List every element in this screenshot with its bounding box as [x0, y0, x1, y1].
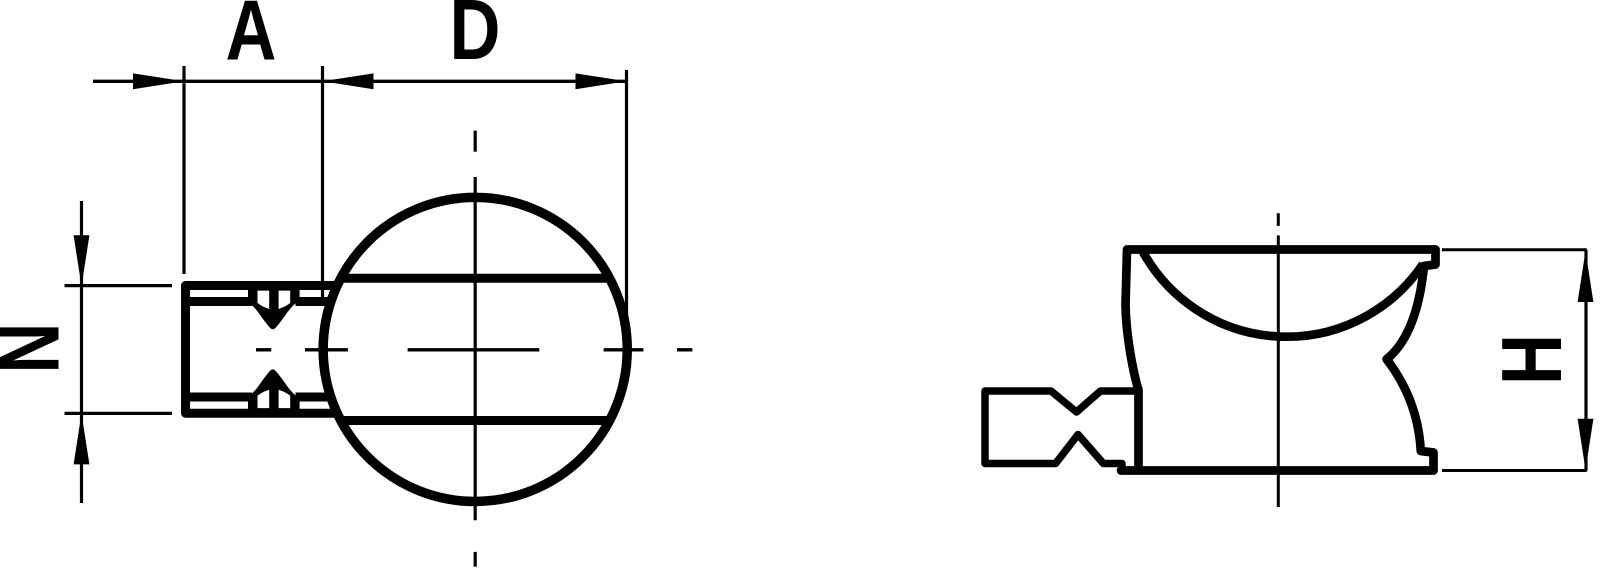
crimp notch white left	[258, 390, 270, 408]
svg-text:A: A	[226, 0, 277, 78]
chord top	[341, 274, 610, 283]
centerline vertical left view	[474, 131, 477, 567]
extension line H top	[1442, 248, 1587, 251]
inner wall top-right	[296, 297, 333, 306]
dimension N line	[80, 201, 83, 503]
dimension N witness top	[65, 284, 173, 287]
svg-text:H: H	[1484, 334, 1580, 385]
arrow H top	[1578, 251, 1594, 302]
extension line H bottom	[1442, 469, 1587, 472]
ball circle	[323, 197, 627, 501]
arrow A left	[133, 73, 184, 89]
extension line A right / D left	[321, 66, 324, 305]
crimp notch white left	[258, 291, 270, 309]
crimp mass top	[248, 283, 300, 329]
dimension N witness bottom	[65, 412, 173, 415]
crimp notch white right	[279, 390, 291, 408]
crimp notch white right	[279, 291, 291, 309]
saddle bowl arc	[1143, 252, 1423, 337]
arrow N top	[74, 235, 90, 286]
inner wall bottom-right	[296, 393, 333, 402]
extension line A left	[182, 66, 185, 274]
inner wall bottom-left	[190, 393, 252, 402]
label N	[0, 323, 77, 374]
centerline vertical right view	[1277, 213, 1280, 507]
label H	[1484, 334, 1580, 385]
dimension line A/D	[93, 80, 627, 83]
chord bottom	[341, 416, 610, 425]
centerline horizontal left view	[256, 348, 692, 351]
crimp bottom assembly (mirror)	[248, 369, 300, 415]
label D	[450, 0, 501, 78]
label A	[226, 0, 277, 78]
svg-text:N: N	[0, 323, 77, 374]
step stem to bottom	[1118, 464, 1126, 471]
arrow D right	[576, 73, 627, 89]
inner wall top-left	[190, 297, 252, 306]
svg-text:D: D	[450, 0, 501, 78]
body outline	[1126, 250, 1436, 471]
arrow H bottom	[1578, 419, 1594, 470]
crimp top assembly	[248, 283, 300, 329]
extension line D right	[625, 70, 628, 318]
arrow D left	[323, 73, 374, 89]
arrow N bottom	[74, 413, 90, 464]
dimension H line	[1584, 250, 1587, 471]
clamp tube side with crimp bowtie	[985, 391, 1138, 464]
crimp mass bottom	[248, 369, 300, 415]
stem outline	[186, 286, 340, 414]
body bottom edge	[1121, 466, 1434, 475]
